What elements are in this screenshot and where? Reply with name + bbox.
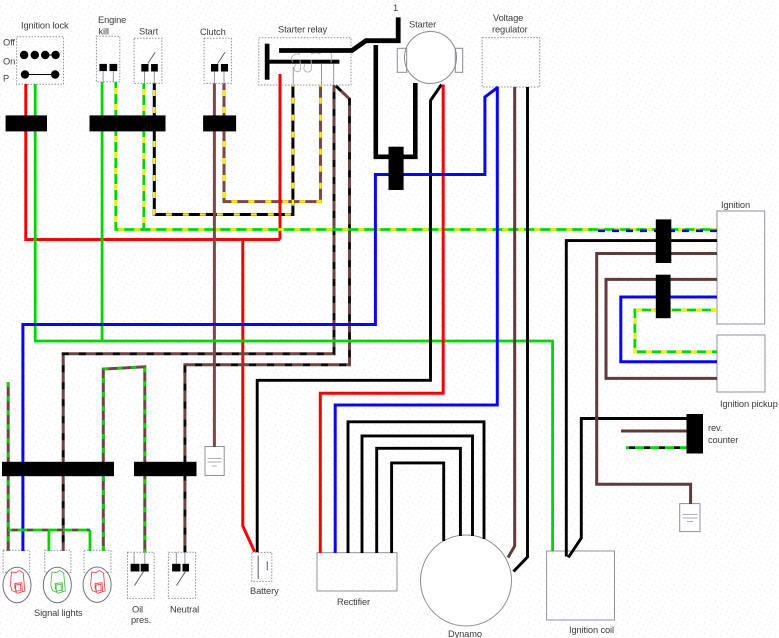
starter motor circle [397,32,462,84]
connector block: rev counter [687,414,704,454]
wire blue: regulator kink to signal light 1 [23,87,498,551]
wire green/yellow: start switch branch [142,84,145,230]
signal light 2 box [43,550,71,602]
wire black: dynamo arch 1 [348,422,484,553]
wire red: battery feed branch [243,240,255,552]
svg-text:Battery: Battery [250,586,279,596]
signal light 1 lamp scribble [10,571,24,594]
connector block: kill and start [90,115,166,131]
connector block: bottom middle [134,462,197,476]
svg-text:Engine: Engine [98,15,126,25]
svg-text:counter: counter [708,435,738,445]
wire black: dynamo arch 4 [392,463,444,553]
wire black: starter to battery [257,85,441,553]
connector block: ignition lower [656,275,671,319]
ignition coil box [547,551,615,620]
wire green/yellow: engine kill to ignition [116,82,717,230]
signal light 2 lamp scribble [51,571,66,594]
connector block: bottom left [2,462,114,476]
svg-text:Starter relay: Starter relay [278,25,328,35]
svg-text:Dynamo: Dynamo [448,629,482,638]
ignition pickup box [717,335,765,392]
wire red: ignition lock to relay junction [26,84,280,240]
wire blue dashed: into ignition [598,230,717,233]
starter relay coil sketch [292,51,332,73]
svg-text:Ignition lock: Ignition lock [21,21,69,31]
wire black: regulator to dynamo [514,87,528,572]
wire black/yellow: start switch to relay [154,84,293,215]
starter relay pin lines [293,64,334,85]
wire green: drop to signal light 2 [48,530,51,551]
connector block: ignition upper [656,219,672,263]
right small sensor box [680,504,700,532]
svg-text:Voltage: Voltage [493,13,523,23]
wire brown: ignition to right sensor box [597,254,717,505]
start switch box [134,38,162,83]
wire green: drop to signal light 3 [89,530,92,551]
wire green: long run to ignition coil [34,341,553,552]
svg-text:Signal lights: Signal lights [34,608,83,618]
svg-text:Ignition pickup: Ignition pickup [720,399,778,409]
dynamo circle [421,535,512,626]
ignition lock contacts row P [21,70,60,78]
connector block: starter lead [389,147,404,190]
starter relay box [259,38,351,85]
wire black: rev counter to coil [568,419,686,558]
wire brown/black: relay to neutral switch [185,86,350,552]
svg-text:Oil: Oil [132,605,143,615]
starter relay contact bar vertical [265,44,270,80]
wire brown: regulator to dynamo [508,87,515,558]
svg-text:Rectifier: Rectifier [337,597,370,607]
wire blue: regulator to rectifier [335,87,497,553]
oil pressure switch box [128,552,155,598]
svg-text:Ignition coil: Ignition coil [569,625,614,635]
wire red: starter to rectifier [320,85,443,554]
wire brown: rev counter [621,430,687,433]
wire thick black 1 to relay [279,17,398,50]
svg-text:Ignition: Ignition [721,200,750,210]
wire green/yellow: ignition to pickup [635,310,717,352]
ignition lock box [17,37,64,85]
clutch switch box [204,38,231,83]
ignition box [717,211,765,324]
connector block: clutch [203,115,236,131]
engine kill switch box [96,36,119,82]
wire brown/yellow: clutch to relay [224,84,321,202]
svg-text:regulator: regulator [492,25,528,35]
neutral switch box [168,552,195,598]
svg-text:pres.: pres. [131,615,151,625]
wire black: dynamo arch 3 [377,448,461,553]
starter relay contact bar horizontal [268,60,339,64]
svg-text:Off: Off [3,38,15,48]
svg-text:1: 1 [393,3,398,13]
wire brown: ignition to pickup [606,279,717,378]
wire brown/black: relay to signal light 2 [63,85,334,551]
wire black: dynamo arch 2 [362,436,473,553]
svg-text:Start: Start [139,27,159,37]
wire green/black: rev counter [626,446,687,449]
connector block: ignition lock [6,115,47,131]
wire green: ignition lock down [34,84,37,341]
rectifier box [317,553,397,591]
signal light 3 lamp scribble [91,571,106,594]
ignition lock contacts row On [20,51,60,59]
wire brown/green: staple signal light 3 to oil switch [103,367,145,553]
signal light 1 box [3,550,31,602]
svg-text:On: On [3,57,15,67]
wire black: ignition to coil [566,241,717,557]
svg-text:rev.: rev. [708,423,722,433]
wire brown/green: left edge to signal light 1 [7,382,10,551]
svg-text:kill: kill [99,27,109,37]
wire brown: clutch to sensor box [213,84,216,448]
svg-text:Clutch: Clutch [200,27,226,37]
wire green/brown: bottom distribution [8,529,90,532]
svg-text:P: P [3,74,9,84]
battery box [252,552,272,581]
svg-text:Neutral: Neutral [170,605,199,615]
voltage regulator box [482,38,540,87]
signal light 3 box [83,550,111,602]
wire green: engine kill down [101,82,104,341]
clutch small sensor box [205,447,224,476]
wire blue: ignition to pickup [621,297,717,362]
svg-text:Starter: Starter [409,20,436,30]
wire red: relay pin down [279,74,282,240]
wire thick black branch to starter [376,45,416,157]
